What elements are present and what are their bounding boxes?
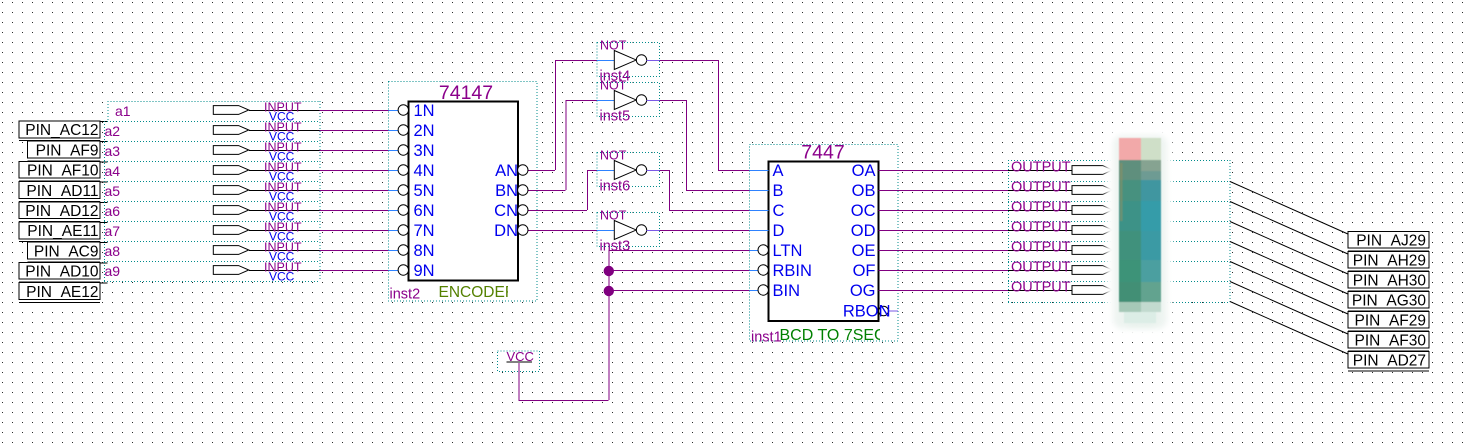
svg-text:NOT: NOT [600,79,627,93]
pin location box PIN_AF9 [28,141,101,158]
wire [320,210,389,212]
svg-text:inst5: inst5 [600,109,631,125]
svg-text:OD: OD [851,222,876,240]
7447 pin OB [879,190,899,192]
not gate inst6 [597,170,614,172]
svg-text:PIN_AH30: PIN_AH30 [1353,273,1427,290]
74147 pin 7N [389,230,399,232]
svg-text:inst6: inst6 [600,179,631,195]
svg-text:OG: OG [850,282,876,300]
7447 pin A [750,170,769,172]
svg-text:CN: CN [494,202,518,220]
pin location box PIN_AD11 [19,182,100,199]
svg-text:RBON: RBON [843,303,891,321]
wire leader diagonal [1230,242,1349,295]
output port row 7 [1008,290,1072,292]
wire [898,190,1008,192]
7447 pin RBON [879,306,889,316]
wire [320,150,389,152]
7447 pin D [750,230,769,232]
svg-text:PIN_AF29: PIN_AF29 [1354,313,1426,330]
wire [898,230,1008,232]
pin location box PIN_AC12 [19,121,100,138]
svg-text:OUTPUT: OUTPUT [1011,260,1071,276]
pin location box PIN_AD27 [1348,352,1429,369]
svg-text:1N: 1N [414,102,435,120]
svg-text:a7: a7 [105,223,121,239]
wire inst5 to B [660,100,687,102]
svg-text:a6: a6 [105,203,121,219]
svg-text:3N: 3N [414,142,435,160]
svg-text:DN: DN [494,222,518,240]
not gate inst5 selection box [597,83,660,117]
wire leader diagonal [1230,182,1349,235]
svg-text:NOT: NOT [600,39,627,53]
74147 pin 1N [389,110,399,112]
vcc symbol [498,351,540,372]
7447 pin RBIN [750,270,759,272]
74147 pin 8N [389,250,399,252]
svg-text:6N: 6N [414,202,435,220]
svg-text:NOT: NOT [600,209,627,223]
svg-text:OB: OB [852,182,876,200]
74147 pin DN [528,230,537,232]
svg-text:AN: AN [495,162,518,180]
wire [898,250,1008,252]
svg-text:C: C [773,202,785,220]
svg-text:BIN: BIN [773,282,801,300]
7447 pin OF [879,270,899,272]
74147 pin 9N [389,270,399,272]
not gate inst4 [597,60,614,62]
svg-text:PIN_AF9: PIN_AF9 [36,142,99,159]
wire CN to inst6 [537,210,587,212]
svg-text:RBIN: RBIN [773,262,812,280]
not gate inst4 selection box [597,43,660,77]
svg-text:OE: OE [852,242,876,260]
svg-text:B: B [773,182,784,200]
pin location box PIN_AH29 [1348,252,1429,269]
svg-text:PIN_AC12: PIN_AC12 [25,122,98,139]
svg-text:PIN_AC9: PIN_AC9 [34,243,99,260]
pin location box PIN_AD10 [19,262,100,279]
not gate inst3 selection box [597,213,660,247]
74147 label ENCODER [439,284,517,301]
pin location box PIN_AE12 [19,283,100,300]
74147 pin 3N [389,150,399,152]
output port row 2 [1008,190,1072,192]
svg-text:2N: 2N [414,122,435,140]
selection region fill: input ports column [104,101,320,281]
svg-text:ENCODER: ENCODER [439,284,517,301]
7447 pin OE [879,250,899,252]
wire AN to inst4 [537,170,555,172]
wire [898,270,1008,272]
wire BN to inst5 [537,190,566,192]
wire leader diagonal [1230,282,1349,335]
svg-text:9N: 9N [414,262,435,280]
svg-text:a9: a9 [105,263,121,279]
wire leader diagonal [1230,222,1349,275]
not gate inst6 selection box [597,153,660,187]
svg-text:a2: a2 [105,123,121,139]
selection dotted boxes: output ports [1008,160,1010,302]
output port row 1 [1008,170,1072,172]
selection region fill: VCC [498,351,540,372]
svg-text:7447: 7447 [801,142,844,164]
pin location box PIN_AF29 [1348,312,1429,329]
wire inst6 to C [660,170,670,172]
wire [320,130,389,132]
wire [898,170,1008,172]
svg-text:7N: 7N [414,222,435,240]
svg-text:BN: BN [495,182,518,200]
wire inst3 to D [660,230,750,232]
svg-text:A: A [773,162,784,180]
output port row 4 [1008,230,1072,232]
svg-text:PIN_AD12: PIN_AD12 [25,203,98,220]
74147 pin 4N [389,170,399,172]
7447 pin LTN [750,250,759,252]
pin location box PIN_AE11 [19,222,100,239]
svg-text:5N: 5N [414,182,435,200]
svg-text:PIN_AE12: PIN_AE12 [26,284,98,301]
7447 pin BIN [750,290,759,292]
svg-text:a1: a1 [115,103,131,119]
7447 pin OG [879,290,899,292]
svg-text:OUTPUT: OUTPUT [1011,240,1071,256]
junction at BIN [604,286,614,296]
svg-text:a5: a5 [105,183,121,199]
74147 pin AN [528,170,537,172]
svg-text:LTN: LTN [773,242,803,260]
pin location box PIN_AJ29 [1348,232,1429,249]
svg-text:PIN_AF10: PIN_AF10 [27,163,99,180]
svg-text:inst2: inst2 [390,287,421,303]
output port row 5 [1008,250,1072,252]
7447 decoder inst1: selection box [750,145,899,342]
svg-text:PIN_AD11: PIN_AD11 [26,183,98,200]
svg-text:OUTPUT: OUTPUT [1011,280,1071,296]
svg-text:a8: a8 [105,243,121,259]
svg-text:VCC: VCC [269,270,295,284]
74147 pin 5N [389,190,399,192]
svg-text:OUTPUT: OUTPUT [1011,220,1071,236]
74147 body [409,102,519,281]
svg-text:8N: 8N [414,242,435,260]
svg-text:PIN_AD10: PIN_AD10 [25,264,99,281]
wire [320,270,389,272]
wire leader diagonal [1230,302,1349,355]
74147 pin 2N [389,130,399,132]
svg-text:PIN_AH29: PIN_AH29 [1353,253,1426,270]
pin location box PIN_AD12 [19,202,100,219]
wire [320,250,389,252]
7447 pin B [750,190,769,192]
pin location box PIN_AH30 [1348,272,1429,289]
wire [898,290,1008,292]
wire leader diagonal [1230,202,1349,255]
74147 pin CN [528,210,537,212]
svg-text:74147: 74147 [439,82,493,104]
wire [320,170,389,172]
7447 label BCD TO 7SEG [780,327,933,344]
output port row 6 [1008,270,1072,272]
wire [898,210,1008,212]
74147 pin BN [528,190,537,192]
pin location box PIN_AG30 [1348,292,1429,309]
svg-text:PIN_AD27: PIN_AD27 [1353,353,1426,370]
svg-text:PIN_AF30: PIN_AF30 [1354,333,1426,350]
svg-text:OUTPUT: OUTPUT [1011,180,1071,196]
svg-text:inst3: inst3 [600,239,631,255]
wire DN to inst3 [537,230,597,232]
decorative display image blob [1106,126,1429,371]
selection dotted boxes: input ports rows a1-a9 [107,101,109,121]
not gate inst5 [597,100,614,102]
74147 pin 6N [389,210,399,212]
7447 pin C [750,210,769,212]
svg-text:4N: 4N [414,162,435,180]
7447 body [769,162,879,322]
7447 pin OD [879,230,899,232]
svg-text:PIN_AE11: PIN_AE11 [27,223,98,240]
svg-text:PIN_AG30: PIN_AG30 [1352,293,1426,310]
pin location box PIN_AF10 [19,161,100,178]
selection region fill: 74147 [389,82,538,302]
svg-text:a4: a4 [105,163,121,179]
output port row 3 [1008,210,1072,212]
not gate inst3 [597,230,614,232]
svg-text:OF: OF [853,262,876,280]
wire leader diagonal [1230,262,1349,315]
svg-text:PIN_AJ29: PIN_AJ29 [1356,233,1426,250]
svg-text:OA: OA [852,162,876,180]
junction at RBIN [604,266,614,276]
svg-text:inst1: inst1 [751,330,782,346]
svg-text:D: D [773,222,785,240]
selection region fill: NOT gates [597,43,660,77]
pin location box PIN_AF30 [1348,332,1429,349]
selection region fill: output ports [1008,160,1230,302]
wire [320,110,389,112]
svg-text:NOT: NOT [600,149,627,163]
selection region fill: 7447 [750,145,899,342]
wire [320,190,389,192]
wire [320,230,389,232]
svg-text:a3: a3 [105,143,121,159]
74147 encoder U inst2: selection box [389,82,538,302]
svg-text:OUTPUT: OUTPUT [1011,200,1071,216]
svg-text:OC: OC [851,202,876,220]
wire vcc net [518,363,520,400]
wire inst4 to A [660,60,719,62]
pin location box PIN_AC9 [28,242,101,259]
7447 pin OA [879,170,899,172]
7447 pin OC [879,210,899,212]
svg-text:OUTPUT: OUTPUT [1011,160,1071,176]
